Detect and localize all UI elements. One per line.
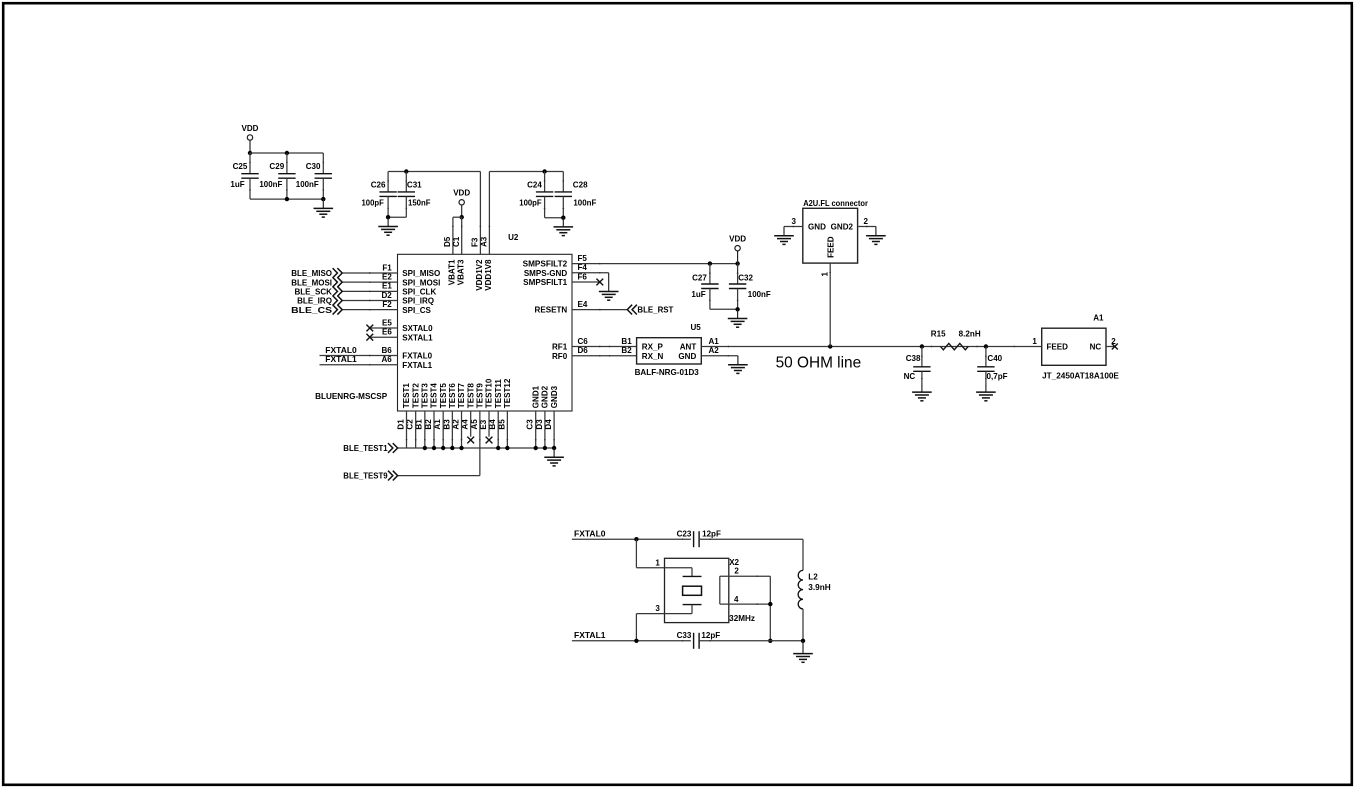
svg-text:D1: D1: [396, 419, 405, 430]
svg-text:C30: C30: [306, 162, 321, 171]
svg-text:C38: C38: [906, 354, 921, 363]
svg-text:C26: C26: [371, 180, 386, 189]
svg-text:50 OHM line: 50 OHM line: [776, 355, 862, 372]
svg-text:VDD: VDD: [453, 189, 470, 198]
svg-text:100nF: 100nF: [573, 199, 596, 208]
svg-text:TEST5: TEST5: [439, 383, 448, 409]
svg-text:L2: L2: [808, 573, 818, 582]
svg-text:A1: A1: [1093, 314, 1104, 323]
svg-text:TEST1: TEST1: [402, 383, 411, 409]
svg-text:FXTAL0: FXTAL0: [325, 346, 357, 355]
svg-text:1: 1: [820, 272, 829, 277]
svg-text:C3: C3: [526, 419, 535, 430]
svg-text:0,7pF: 0,7pF: [987, 372, 1008, 381]
svg-text:3: 3: [655, 604, 660, 613]
svg-text:E6: E6: [382, 328, 392, 337]
svg-text:C40: C40: [987, 354, 1002, 363]
svg-text:100nF: 100nF: [259, 180, 282, 189]
svg-text:C31: C31: [407, 180, 422, 189]
svg-text:RF0: RF0: [552, 352, 568, 361]
svg-text:2: 2: [734, 567, 739, 576]
svg-text:TEST9: TEST9: [476, 383, 485, 409]
svg-text:SPI_MOSI: SPI_MOSI: [402, 278, 440, 287]
svg-text:JT_2450AT18A100E: JT_2450AT18A100E: [1042, 372, 1119, 381]
svg-text:SXTAL0: SXTAL0: [402, 324, 433, 333]
svg-text:BLE_SCK: BLE_SCK: [294, 287, 332, 296]
svg-text:TEST6: TEST6: [448, 383, 457, 409]
svg-text:1uF: 1uF: [230, 180, 244, 189]
svg-text:VDD1V8: VDD1V8: [484, 259, 493, 291]
svg-text:TEST11: TEST11: [494, 379, 503, 409]
svg-text:TEST12: TEST12: [503, 378, 512, 408]
svg-text:RX_P: RX_P: [642, 343, 664, 352]
svg-text:BLE_MISO: BLE_MISO: [291, 269, 332, 278]
svg-text:SMPSFILT2: SMPSFILT2: [523, 260, 568, 269]
svg-text:F2: F2: [382, 300, 392, 309]
svg-text:C6: C6: [578, 337, 589, 346]
svg-text:RF1: RF1: [552, 343, 568, 352]
svg-text:FEED: FEED: [827, 236, 836, 258]
svg-text:B1: B1: [621, 337, 632, 346]
svg-text:D5: D5: [443, 236, 452, 247]
svg-text:C29: C29: [269, 162, 284, 171]
svg-text:X2: X2: [729, 558, 739, 567]
svg-text:C32: C32: [738, 273, 753, 282]
svg-text:NC: NC: [1090, 343, 1102, 352]
svg-text:TEST2: TEST2: [411, 383, 420, 409]
svg-text:C1: C1: [452, 236, 461, 247]
svg-text:FXTAL1: FXTAL1: [574, 631, 606, 640]
svg-text:BLE_TEST9: BLE_TEST9: [343, 472, 388, 481]
svg-text:1: 1: [655, 559, 660, 568]
svg-text:3: 3: [792, 217, 797, 226]
svg-text:U2: U2: [508, 233, 519, 242]
svg-text:A6: A6: [382, 355, 393, 364]
svg-text:100pF: 100pF: [362, 199, 384, 208]
svg-text:C33: C33: [677, 631, 692, 640]
svg-text:VDD1V2: VDD1V2: [475, 259, 484, 291]
svg-text:D6: D6: [578, 346, 589, 355]
svg-text:TEST7: TEST7: [457, 383, 466, 409]
svg-text:D2: D2: [382, 291, 393, 300]
svg-text:VBAT3: VBAT3: [457, 259, 466, 285]
svg-text:FXTAL0: FXTAL0: [574, 529, 606, 538]
svg-text:C27: C27: [692, 273, 707, 282]
svg-text:SPI_IRQ: SPI_IRQ: [402, 297, 434, 306]
svg-text:BLE_TEST1: BLE_TEST1: [343, 444, 388, 453]
svg-text:SPI_MISO: SPI_MISO: [402, 269, 440, 278]
svg-text:GND2: GND2: [541, 385, 550, 408]
svg-text:TEST10: TEST10: [485, 378, 494, 408]
svg-text:B2: B2: [621, 346, 632, 355]
svg-text:GND2: GND2: [831, 223, 854, 232]
svg-text:SPI_CLK: SPI_CLK: [402, 287, 436, 296]
svg-text:A2: A2: [709, 346, 720, 355]
svg-text:FEED: FEED: [1047, 343, 1069, 352]
svg-text:SPI_CS: SPI_CS: [402, 306, 431, 315]
svg-text:FXTAL1: FXTAL1: [325, 355, 357, 364]
svg-text:E4: E4: [578, 300, 588, 309]
svg-text:1: 1: [1032, 337, 1037, 346]
svg-text:F3: F3: [471, 237, 480, 247]
svg-text:100nF: 100nF: [296, 180, 319, 189]
svg-text:F6: F6: [578, 272, 588, 281]
svg-text:VDD: VDD: [729, 235, 746, 244]
svg-text:E2: E2: [382, 273, 392, 282]
svg-text:R15: R15: [931, 329, 946, 338]
svg-text:BLE_MOSI: BLE_MOSI: [291, 278, 332, 287]
svg-text:BLE_IRQ: BLE_IRQ: [297, 297, 332, 306]
svg-text:TEST8: TEST8: [466, 383, 475, 409]
svg-text:RX_N: RX_N: [642, 352, 664, 361]
svg-text:C23: C23: [677, 529, 692, 538]
svg-text:SMPSFILT1: SMPSFILT1: [523, 278, 568, 287]
svg-text:F1: F1: [382, 263, 392, 272]
svg-text:A1: A1: [709, 337, 720, 346]
svg-text:TEST4: TEST4: [430, 383, 439, 409]
svg-text:BLE_CS: BLE_CS: [291, 306, 333, 315]
svg-text:BLE_RST: BLE_RST: [637, 305, 673, 314]
svg-text:C28: C28: [573, 180, 588, 189]
svg-text:BALF-NRG-01D3: BALF-NRG-01D3: [635, 368, 700, 377]
svg-text:VBAT1: VBAT1: [448, 259, 457, 285]
svg-text:1uF: 1uF: [691, 290, 705, 299]
svg-text:GND: GND: [678, 352, 696, 361]
svg-text:SMPS-GND: SMPS-GND: [524, 269, 568, 278]
svg-text:F4: F4: [578, 263, 588, 272]
svg-text:GND: GND: [808, 223, 826, 232]
svg-text:B6: B6: [382, 346, 393, 355]
svg-text:GND1: GND1: [531, 385, 540, 408]
svg-text:150nF: 150nF: [408, 199, 431, 208]
svg-text:32MHz: 32MHz: [729, 614, 755, 623]
svg-text:2: 2: [1111, 337, 1116, 346]
svg-text:100pF: 100pF: [519, 199, 541, 208]
svg-text:100nF: 100nF: [748, 290, 771, 299]
svg-text:SXTAL1: SXTAL1: [402, 333, 433, 342]
svg-text:A3: A3: [480, 236, 489, 247]
svg-text:C25: C25: [233, 162, 248, 171]
svg-text:VDD: VDD: [242, 124, 259, 133]
svg-text:NC: NC: [904, 372, 916, 381]
svg-text:3.9nH: 3.9nH: [808, 583, 831, 592]
svg-text:GND3: GND3: [550, 385, 559, 408]
svg-text:RESETN: RESETN: [535, 306, 568, 315]
svg-text:ANT: ANT: [680, 343, 697, 352]
svg-text:12pF: 12pF: [702, 529, 721, 538]
svg-text:4: 4: [734, 595, 739, 604]
svg-text:E1: E1: [382, 282, 392, 291]
svg-text:FXTAL1: FXTAL1: [402, 361, 432, 370]
svg-text:2: 2: [864, 217, 869, 226]
svg-text:U5: U5: [691, 323, 702, 332]
svg-text:12pF: 12pF: [701, 631, 720, 640]
svg-text:F5: F5: [578, 254, 588, 263]
svg-text:C24: C24: [527, 180, 542, 189]
svg-text:8.2nH: 8.2nH: [959, 329, 981, 338]
svg-text:TEST3: TEST3: [421, 383, 430, 409]
svg-text:E5: E5: [382, 318, 392, 327]
svg-text:FXTAL0: FXTAL0: [402, 352, 432, 361]
svg-text:A2U.FL connector: A2U.FL connector: [803, 199, 869, 208]
svg-text:BLUENRG-MSCSP: BLUENRG-MSCSP: [315, 392, 388, 401]
